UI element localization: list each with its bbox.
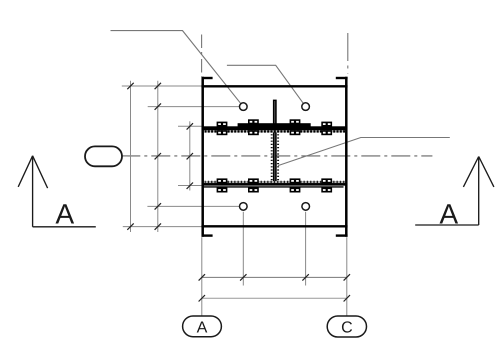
leader 2 to upper-right hole bbox=[227, 65, 303, 103]
vertical dimension line 1 bbox=[130, 81, 132, 232]
section letter A (left) bbox=[56, 204, 75, 223]
grid bubble A bbox=[183, 316, 222, 337]
bottom dimension line 1 bbox=[202, 276, 347, 278]
bolt B6 lower bbox=[248, 178, 259, 183]
hole lower-left bbox=[240, 203, 248, 211]
extension line to upper-left hole bbox=[148, 106, 240, 108]
extension line below lower-right hole bbox=[305, 212, 307, 286]
bottom edge bbox=[201, 225, 347, 227]
leader 1 to upper-left hole bbox=[111, 31, 241, 104]
stiffener weld serration left bbox=[271, 131, 273, 182]
grid line C (above structure) bbox=[347, 33, 349, 74]
bolt B7 lower bbox=[290, 178, 301, 183]
bolt B2 upper bbox=[248, 119, 259, 124]
hole upper-right bbox=[302, 103, 310, 111]
section letter A (right) bbox=[440, 204, 459, 223]
upper flange serration base bbox=[205, 130, 346, 132]
grid bubble C bbox=[327, 316, 366, 337]
bolt B1 upper bbox=[217, 122, 228, 127]
bottom-left lip bbox=[202, 234, 213, 236]
extension line to lower-left hole bbox=[147, 205, 239, 207]
upper flange serration bbox=[205, 130, 346, 132]
stiffener weld serration right bbox=[277, 131, 279, 182]
lower cover plate line bbox=[202, 186, 344, 188]
bottom dimension line 2 bbox=[202, 297, 347, 299]
vertical dimension line 3 bbox=[189, 121, 191, 190]
bolt B3 upper bbox=[290, 119, 301, 124]
grid line C (below structure) bbox=[346, 237, 348, 316]
leader 3 to stiffener bbox=[278, 138, 450, 166]
bottom-right lip bbox=[336, 234, 348, 236]
left section arrow A bbox=[18, 156, 96, 227]
capsule label (empty) bbox=[85, 146, 122, 166]
lower flange bbox=[202, 183, 347, 186]
horizontal centerline bbox=[121, 155, 432, 157]
dimension extension line, upper flange bbox=[178, 125, 202, 127]
top edge bbox=[201, 85, 347, 87]
upper flange bbox=[202, 126, 347, 130]
right section arrow A bbox=[415, 157, 494, 226]
bolt B4 upper bbox=[321, 122, 332, 127]
dimension tick marks bbox=[127, 83, 350, 302]
lower flange serration base bbox=[205, 181, 346, 183]
right channel edge bbox=[345, 77, 348, 237]
vertical dimension line 2 bbox=[157, 81, 159, 232]
lower flange serration bbox=[205, 181, 346, 183]
left channel edge bbox=[201, 77, 204, 237]
bubble letter C bbox=[342, 321, 352, 332]
hole upper-left bbox=[240, 103, 248, 111]
dimension extension line, bottom edge bbox=[123, 226, 202, 228]
upper cover plate bbox=[238, 123, 311, 126]
extension line below lower-left hole bbox=[242, 212, 244, 286]
bubble letter A bbox=[197, 321, 208, 332]
dimension extension line, lower flange bbox=[178, 185, 202, 187]
top-left lip bbox=[202, 77, 213, 79]
bolt B8 lower bbox=[321, 178, 332, 183]
top-right lip bbox=[336, 77, 348, 79]
dimension extension line, top edge bbox=[122, 85, 202, 87]
bolt B5 lower bbox=[217, 178, 228, 183]
grid line A (above structure) bbox=[201, 35, 203, 78]
stiffener web plate bbox=[273, 100, 277, 184]
hole lower-right bbox=[302, 203, 310, 211]
grid line A (below structure) bbox=[201, 237, 203, 316]
